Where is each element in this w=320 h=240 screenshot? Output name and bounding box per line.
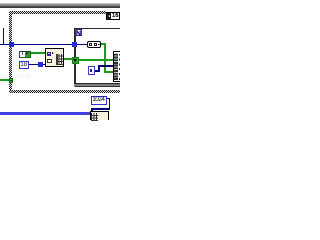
wire green compare out	[101, 43, 106, 45]
shift register left	[72, 57, 79, 64]
wire 1024 right	[107, 98, 110, 100]
wire green SR to tall node	[79, 59, 114, 61]
wire green into case	[0, 79, 9, 81]
tunnel blue on case border	[9, 42, 14, 47]
junction dot blue	[38, 62, 43, 67]
node Equal?	[87, 41, 101, 48]
case structure left border	[9, 11, 12, 93]
tunnel blue on loop border	[72, 42, 77, 47]
wire 1024 down stub	[91, 108, 93, 112]
wire green array out	[64, 58, 73, 60]
numeric constant 1024	[91, 96, 107, 105]
for loop bottom border	[74, 83, 120, 87]
wire green vertical down	[104, 43, 106, 73]
case structure bottom border	[9, 90, 120, 94]
wire segment left vertical black	[3, 28, 4, 45]
for loop top border	[74, 28, 120, 30]
iteration terminal i	[88, 66, 95, 74]
wire blue 18 to node	[29, 64, 46, 66]
node bottom array	[90, 111, 110, 120]
wire 1024 left	[91, 108, 110, 110]
wire blue horizontal main	[0, 44, 87, 46]
wire 1024 down	[109, 98, 111, 110]
node Replace Array Subset tall	[113, 51, 120, 82]
case selector label	[106, 12, 120, 20]
tunnel green on case border	[9, 78, 14, 83]
wire green into tall node	[104, 71, 114, 73]
for loop left border	[74, 28, 76, 85]
boolean constant TF	[19, 51, 31, 58]
toolbar gray bar	[0, 3, 120, 8]
case structure top border	[9, 11, 106, 14]
wire blue i out	[95, 70, 99, 72]
node Initialize Array	[45, 48, 64, 67]
count terminal N	[75, 29, 82, 37]
numeric constant 18	[19, 61, 29, 70]
wire thick blue bottom	[0, 112, 90, 115]
label faint	[16, 74, 30, 78]
wire green TF to node	[31, 52, 45, 54]
